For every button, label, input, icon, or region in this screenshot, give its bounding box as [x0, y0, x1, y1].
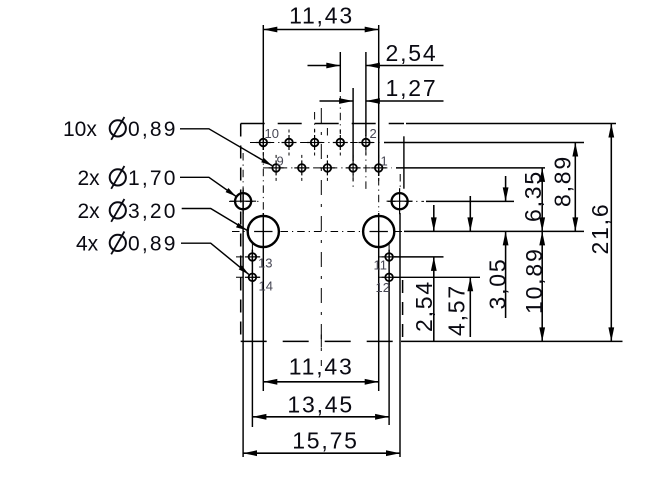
svg-text:11,43: 11,43: [289, 354, 354, 380]
pin hole 1: [375, 164, 383, 172]
svg-text:0,89: 0,89: [128, 118, 178, 141]
svg-text:1,70: 1,70: [128, 167, 178, 190]
extension line left shield hole column down (15,75): [242, 190, 244, 457]
mounting hole 3,20 right: [363, 216, 394, 247]
svg-text:0,89: 0,89: [128, 233, 178, 256]
svg-text:11,43: 11,43: [289, 3, 354, 29]
vertical centerline of footprint: [320, 108, 322, 366]
svg-text:14: 14: [259, 279, 273, 294]
connector body outline bottom edge (dashed): [241, 340, 401, 342]
pin hole 10: [260, 139, 268, 147]
svg-text:8,89: 8,89: [550, 155, 576, 207]
dimension 8,89 vertical: [574, 143, 576, 232]
svg-text:10x: 10x: [63, 118, 97, 141]
svg-text:2x: 2x: [78, 167, 101, 190]
centerline above left shield hole: [242, 153, 244, 190]
horizontal centerline through bottom pin row: [263, 167, 392, 169]
horizontal centerline through top pin row: [250, 142, 380, 144]
extension line right from mounting hole row: [404, 230, 584, 232]
extension line pin-10 column (11,43 top): [262, 25, 264, 150]
dimension 21,6 vertical: [610, 124, 612, 342]
extension line pin-3 column (1,27): [352, 88, 354, 161]
svg-text:6,35: 6,35: [520, 170, 546, 222]
svg-text:21,6: 21,6: [587, 203, 613, 255]
extension line from outline top edge to 21,6 dim: [406, 123, 616, 125]
svg-text:2,54: 2,54: [411, 280, 437, 332]
LED pin hole 11: [385, 253, 393, 261]
dimension 10,89 vertical: [541, 231, 543, 341]
svg-text:11: 11: [374, 258, 388, 273]
dimension 11,43 top: [263, 29, 378, 31]
extension line hole-11/12 column down (13,45): [388, 250, 390, 425]
pin hole 4: [337, 139, 345, 147]
svg-text:9: 9: [277, 154, 284, 169]
extension line right from top pin row (for 8,89): [384, 142, 584, 144]
svg-text:10: 10: [265, 126, 279, 141]
extension line left mounting hole column down (11,43 bottom): [262, 213, 264, 391]
svg-text:3,20: 3,20: [128, 200, 178, 223]
dimension 15,75 bottom: [243, 452, 400, 454]
LED pin hole 12: [385, 274, 393, 282]
svg-text:12: 12: [376, 280, 390, 295]
extension line hole-13/14 column down (13,45): [251, 250, 253, 427]
extension line pin-2 column (2,54 / 1,27): [365, 52, 367, 136]
dimension 3,05 vertical: [505, 176, 507, 201]
pin hole 7: [298, 164, 306, 172]
horizontal centerline through mounting holes: [232, 231, 247, 233]
pin hole 9: [272, 164, 280, 172]
pin hole 8: [285, 139, 293, 147]
centerline left shield hole: [229, 200, 259, 202]
dimension 4,57 vertical: [469, 196, 471, 231]
extension line pin-4 column (2,54): [339, 52, 341, 92]
svg-text:13,45: 13,45: [287, 391, 354, 417]
centerline tick crossing bottom edge: [320, 335, 322, 348]
LED pin hole 14: [249, 274, 257, 282]
pin hole 5: [324, 164, 332, 172]
dimension 2,54 top: [308, 65, 341, 67]
extension line right from shield hole row (for 3,05): [426, 200, 514, 202]
svg-text:4x: 4x: [76, 233, 99, 256]
centerline above right shield hole: [399, 174, 401, 190]
pin hole 2: [362, 139, 370, 147]
centerline right shield hole: [388, 200, 424, 202]
svg-text:1: 1: [381, 154, 388, 169]
svg-text:2: 2: [370, 126, 377, 141]
shield hole 1,70 right: [392, 193, 408, 209]
svg-text:3,05: 3,05: [484, 258, 510, 310]
mounting hole 3,20 left: [248, 216, 279, 247]
svg-text:2,54: 2,54: [386, 40, 438, 66]
dimension 11,43 bottom: [263, 381, 378, 383]
dimension 6,35 vertical: [541, 168, 543, 232]
svg-text:2x: 2x: [78, 200, 101, 223]
dimension 2,54 vertical (hole 13 row to mounting hole row): [433, 205, 435, 231]
connector body outline top edge (dashed): [241, 123, 404, 125]
dimension 1,27 top: [320, 100, 354, 102]
connector body outline right edge upper segment: [403, 136, 405, 188]
connector body outline left edge (dashed): [240, 124, 242, 342]
shield hole 1,70 left: [235, 193, 251, 209]
centerline row holes 14/12: [236, 276, 263, 278]
extension line pin-1 column (11,43 top): [378, 25, 380, 176]
LED pin hole 13: [249, 253, 257, 261]
svg-text:1,27: 1,27: [386, 75, 438, 101]
extension line right mounting hole column down: [378, 213, 380, 391]
centerline row holes 13/11: [236, 256, 263, 258]
svg-text:4,57: 4,57: [444, 284, 470, 336]
extension line right from bottom pin row (for 6,35): [396, 167, 545, 169]
connector body outline right edge lower part (dashed): [402, 280, 404, 341]
pin hole 6: [311, 139, 319, 147]
extension line right from hole-11 row (for 2,54): [394, 256, 444, 258]
pin hole 3: [349, 164, 357, 172]
svg-text:10,89: 10,89: [521, 247, 547, 314]
svg-text:13: 13: [258, 256, 272, 271]
extension line from outline bottom edge: [401, 340, 623, 342]
extension line right shield hole column down (15,75): [399, 213, 401, 457]
dimension 13,45 bottom: [252, 416, 389, 418]
svg-text:15,75: 15,75: [292, 427, 359, 453]
extension line right from hole-12 row (for 4,57): [394, 276, 480, 278]
